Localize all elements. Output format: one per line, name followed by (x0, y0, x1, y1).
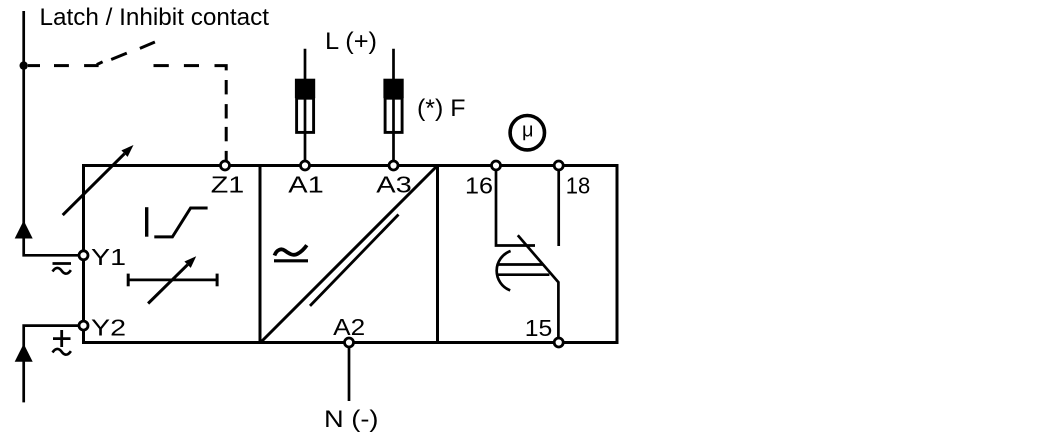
svg-text:L (+): L (+) (325, 28, 377, 55)
svg-text:Y1: Y1 (91, 244, 126, 270)
svg-text:A1: A1 (288, 172, 324, 198)
svg-text:A2: A2 (333, 314, 365, 340)
svg-text:N (-): N (-) (324, 406, 379, 433)
svg-text:16: 16 (465, 173, 493, 199)
svg-text:A3: A3 (376, 172, 412, 198)
svg-text:Latch / Inhibit contact: Latch / Inhibit contact (40, 4, 270, 31)
svg-text:18: 18 (566, 173, 591, 199)
svg-text:Y2: Y2 (91, 315, 126, 341)
svg-text:(*) F: (*) F (417, 95, 466, 122)
svg-text:Z1: Z1 (211, 172, 245, 198)
svg-text:15: 15 (525, 315, 553, 341)
svg-text:μ: μ (522, 120, 534, 142)
